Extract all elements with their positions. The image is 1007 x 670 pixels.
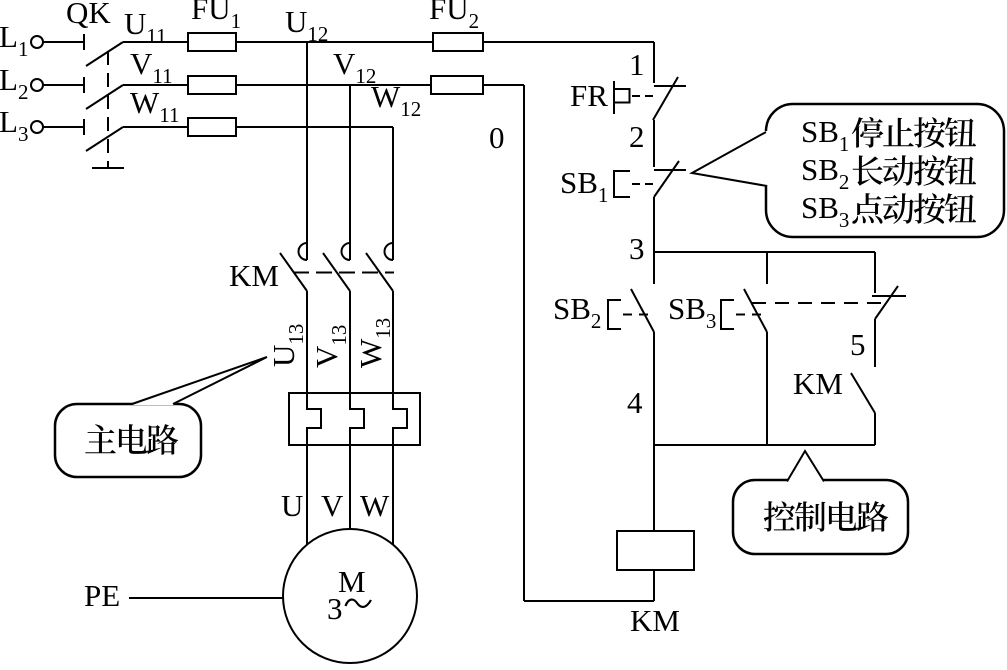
wire phase 2 down to KM bbox=[349, 85, 351, 260]
svg-text:5: 5 bbox=[850, 327, 866, 362]
terminal L2 bbox=[31, 79, 43, 91]
svg-text:2: 2 bbox=[629, 119, 645, 154]
svg-text:KM: KM bbox=[229, 258, 279, 293]
wire node 1 vertical bbox=[653, 42, 655, 83]
contactor KM main contact 1 arc bbox=[299, 243, 307, 260]
terminal L3 bbox=[31, 121, 43, 133]
button SB2 actuator link (dashed) bbox=[623, 314, 651, 316]
wire node 3 to SB3 bbox=[766, 252, 768, 284]
legend text SB3 jog button bbox=[801, 190, 976, 232]
switch QK handle bar bbox=[92, 167, 124, 169]
wire W11/W12 (L3 phase) bbox=[123, 126, 393, 128]
wire KM coil to return bbox=[653, 570, 655, 601]
svg-text:PE: PE bbox=[84, 578, 120, 613]
wire node 2 (FR to SB1) bbox=[653, 120, 655, 167]
fuse FU1 pole 3 bbox=[188, 118, 236, 136]
fuse FU2 pole 2 bbox=[431, 76, 483, 94]
wire PE to motor frame bbox=[129, 597, 283, 599]
motor M circle bbox=[283, 529, 417, 663]
callout pointer to U13 bbox=[132, 357, 267, 405]
button SB1 actuator symbol bbox=[614, 171, 630, 197]
wire phase 2 through FR heater to motor bbox=[350, 291, 364, 529]
wire node 3 horizontal bbox=[654, 251, 875, 253]
svg-text:3: 3 bbox=[327, 591, 343, 626]
callout pointer to control circuit bbox=[786, 450, 825, 482]
wire node 3 to SB2 bbox=[653, 252, 655, 284]
svg-text:4: 4 bbox=[627, 385, 643, 420]
svg-text:V: V bbox=[321, 488, 344, 523]
switch QK pole 3 fixed contact bbox=[83, 119, 85, 135]
relay FR actuator symbol bbox=[614, 81, 630, 114]
fuse FU1 pole 2 bbox=[188, 76, 236, 94]
svg-text:1: 1 bbox=[629, 47, 645, 82]
wire return to node 0 bbox=[524, 600, 654, 602]
button SB3 actuator symbol bbox=[721, 300, 734, 329]
wire SB3 to node 4 bbox=[766, 332, 768, 445]
wire U11/U12 (L1 phase, node 1 feed) bbox=[123, 41, 654, 43]
svg-text:QK: QK bbox=[66, 0, 111, 30]
wire SB1 to node 3 bbox=[653, 197, 655, 252]
wire node 4 to KM coil bbox=[653, 445, 655, 531]
button SB1 actuator link (dashed) bbox=[632, 183, 653, 185]
contactor KM main contact 1 blade bbox=[280, 253, 307, 291]
button SB1 NC contact bar bbox=[654, 169, 686, 171]
label control circuit (Chinese) bbox=[764, 501, 888, 532]
contactor coil KM bbox=[617, 531, 694, 570]
wire SB2 to node 4 bbox=[653, 332, 655, 445]
terminal L1 bbox=[31, 36, 43, 48]
contactor KM main contact 3 arc bbox=[385, 243, 394, 260]
wire V11/V12 (L2 phase, node 0 feed) bbox=[123, 84, 524, 86]
fuse FU1 pole 1 bbox=[188, 33, 236, 51]
legend text SB1 stop button bbox=[801, 114, 976, 156]
relay FR actuator link (dashed) bbox=[632, 95, 653, 97]
wire phase 3 down to KM bbox=[392, 127, 394, 260]
wire L2 to QK bbox=[43, 84, 84, 86]
legend text SB2 run button bbox=[801, 152, 976, 194]
contactor KM main contacts gang link (dashed) bbox=[293, 272, 394, 274]
contactor KM main contact 3 blade bbox=[366, 253, 393, 291]
callout bubble: button legend bbox=[766, 104, 1004, 237]
svg-text:FR: FR bbox=[570, 78, 608, 113]
contactor KM aux contact blade bbox=[851, 373, 875, 413]
wire node 3 to SB3 NC contact bbox=[874, 252, 876, 293]
thermal relay FR heater box bbox=[289, 393, 420, 445]
switch QK pole 1 blade bbox=[86, 42, 123, 66]
svg-text:U: U bbox=[281, 488, 303, 523]
wire node 5 (NC to KM aux) bbox=[874, 319, 876, 367]
fuse FU2 pole 1 bbox=[433, 33, 483, 51]
svg-text:KM: KM bbox=[630, 603, 680, 638]
button SB3 actuator link (dashed) bbox=[736, 314, 764, 316]
relay FR NC contact bar bbox=[654, 85, 686, 87]
switch QK pole 1 fixed contact bbox=[83, 34, 85, 50]
button SB3 NO contact blade bbox=[744, 289, 767, 332]
svg-text:KM: KM bbox=[793, 366, 843, 401]
contactor KM main contact 2 blade bbox=[323, 253, 350, 291]
label main circuit (Chinese) bbox=[85, 424, 178, 455]
switch QK pole 3 blade bbox=[86, 127, 123, 151]
wire phase 1 down to KM bbox=[306, 42, 308, 260]
wire L3 to QK bbox=[43, 126, 84, 128]
callout bubble: control circuit label bbox=[733, 480, 908, 554]
button SB3 NC contact bar bbox=[872, 295, 906, 297]
switch QK gang link (dashed) bbox=[107, 51, 109, 168]
relay FR NC contact blade bbox=[653, 77, 678, 120]
wire KM aux to node 4 bbox=[874, 413, 876, 445]
switch QK pole 2 fixed contact bbox=[83, 77, 85, 93]
svg-text:3: 3 bbox=[629, 231, 645, 266]
button SB1 NC contact blade bbox=[654, 161, 679, 197]
wire phase 1 through FR heater to motor bbox=[307, 291, 321, 545]
wire L1 to QK bbox=[43, 41, 84, 43]
contactor KM main contact 2 arc bbox=[342, 243, 351, 260]
button SB3 link to NC contact (long dashed) bbox=[752, 302, 890, 304]
wire phase 3 through FR heater to motor bbox=[393, 291, 407, 545]
wire node 0 vertical bbox=[523, 85, 525, 601]
callout pointer to SB1 bbox=[764, 131, 769, 185]
wire node 4 horizontal bbox=[654, 444, 875, 446]
callout bubble: main circuit label bbox=[55, 404, 201, 477]
motor tilde bbox=[346, 600, 372, 607]
svg-text:0: 0 bbox=[489, 120, 505, 155]
button SB3 NC contact blade bbox=[875, 286, 898, 319]
switch QK pole 2 blade bbox=[86, 85, 123, 109]
button SB2 actuator symbol bbox=[608, 300, 621, 329]
button SB2 NO contact blade bbox=[631, 289, 654, 332]
svg-text:W: W bbox=[360, 488, 390, 523]
